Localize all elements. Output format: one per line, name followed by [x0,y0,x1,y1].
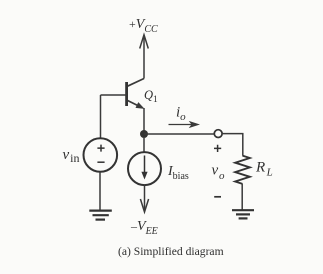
transistor Q1 [127,82,158,109]
ground left [89,211,112,220]
source Ibias [128,152,161,185]
wire base [101,94,127,96]
node junction dot [140,130,148,138]
wire collector diagonal [128,79,145,87]
svg-text:(a) Simplified diagram: (a) Simplified diagram [118,245,224,258]
wire output [144,133,214,135]
wire vin top [100,95,102,138]
power +VCC label [129,17,158,35]
label minus for vo [214,196,221,198]
current label io [169,105,201,129]
wire RL bottom [241,184,243,210]
source vin [84,138,118,172]
resistor RL [235,156,250,184]
wire vin bottom [99,172,101,210]
wire node to Ibias [143,138,145,152]
terminal open circle [214,130,222,138]
wire terminal to RL [222,134,243,156]
wire Ibias to VEE arrow [140,185,148,212]
label + for vo [214,145,221,152]
ground right [232,210,254,218]
wire emitter to node [143,108,145,134]
power VCC arrow [140,35,149,79]
